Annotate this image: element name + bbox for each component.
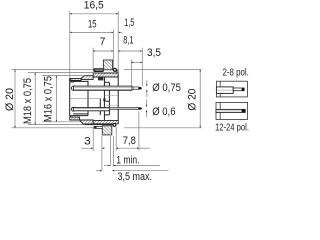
wire extension line x=93.1 (92, 48, 94, 70)
wire extension line x=142.3 (141, 48, 143, 87)
cavity bottom edge (70, 115, 88, 117)
svg-text:Ø 0,75: Ø 0,75 (152, 82, 181, 94)
dimension 1 min. (104, 155, 160, 167)
lower pin tail (109, 108, 138, 110)
upper pin Ø0,75: left cap (71, 86, 75, 90)
wire extension line x=113.4 top (112, 29, 114, 69)
dimension 3 bottom (81, 135, 105, 148)
front shell top wall hatched (70, 78, 81, 80)
insert step bottom (104, 114, 109, 116)
insert vertical x=109.4 (108, 82, 110, 115)
detail box 12-24 pol. (216, 102, 248, 119)
contact pin box1 (233, 88, 244, 91)
contact pin dark tip box1 (242, 88, 245, 91)
upper pin body (74, 86, 132, 90)
upper pin tip dark end (138, 87, 142, 90)
o-ring bottom (113, 123, 116, 126)
panel block top hatched (103, 60, 112, 70)
shell bottom ramp hatched (80, 120, 94, 124)
svg-text:Ø 20: Ø 20 (4, 88, 16, 111)
upper pin tip (132, 87, 139, 90)
contact bar inner line box2 (217, 110, 244, 112)
panel block bottom hatched (102, 126, 112, 135)
leader Ø0,6 arrows (147, 100, 176, 119)
dimension 15 (70, 18, 114, 32)
svg-text:12-24 pol.: 12-24 pol. (215, 122, 249, 134)
contact cup box1 (216, 87, 233, 94)
svg-text:Ø 0,6: Ø 0,6 (152, 106, 175, 118)
dark detail top back (98, 77, 103, 80)
lower pin Ø0,6: left cap (71, 107, 75, 111)
wire extension line front face (69, 11, 71, 78)
lip top (117, 70, 118, 73)
detail box2 inner vertical (219, 102, 221, 119)
dimension 16,5 (70, 0, 118, 14)
svg-text:8,1: 8,1 (123, 35, 133, 47)
center junction block (103, 98, 105, 101)
contact bar box2 (216, 109, 245, 112)
o-ring top (113, 68, 116, 71)
bottom extension lines (92, 127, 94, 151)
svg-text:16,5: 16,5 (84, 0, 104, 11)
contact cup inner line box1 (217, 89, 232, 91)
back face (117, 77, 119, 121)
center step line (106, 100, 110, 102)
svg-text:15: 15 (88, 18, 97, 30)
dimension 1,5 (118, 17, 134, 33)
dimension 7,8 (116, 135, 150, 148)
insulator front face (87, 81, 89, 116)
dimension 8,1 (118, 35, 142, 52)
svg-text:7: 7 (100, 36, 106, 48)
shell top M18 band hatched (93, 73, 118, 77)
dimension left Ø20 (4, 70, 93, 128)
flange ring bottom dark end (94, 126, 96, 128)
front face (70, 79, 72, 117)
svg-text:M18 x 0,75: M18 x 0,75 (22, 78, 34, 124)
dimension 3,5 max. (96, 171, 169, 183)
contact dark tip box2 (242, 109, 246, 112)
insert vertical x=104.4 (103, 77, 105, 120)
dimension right Ø20 (124, 70, 201, 128)
wire extension line x=131.4 (130, 59, 132, 86)
svg-text:Ø 20: Ø 20 (186, 89, 198, 111)
svg-text:7,8: 7,8 (123, 135, 136, 147)
dimension M16 x 0,75 (42, 76, 84, 122)
flange ring bottom (94, 126, 103, 128)
dimension M18 x 0,75 (22, 73, 93, 125)
svg-text:2-8 pol.: 2-8 pol. (223, 66, 249, 78)
front shell bottom wall hatched (70, 117, 80, 120)
ring bottom dark bar (86, 124, 114, 126)
shell top ramp M16 section hatched (81, 76, 93, 80)
detail box1 inner vertical (219, 81, 221, 97)
lower pin dark end (138, 107, 142, 109)
svg-text:1 min.: 1 min. (116, 155, 139, 167)
svg-text:1,5: 1,5 (124, 17, 134, 29)
lower pin body (73, 108, 109, 111)
lower pin inner line (74, 108, 137, 110)
upper pin inner lines (75, 86, 132, 88)
detail box 2-8 pol. (216, 81, 247, 97)
leader Ø0,75 arrows (147, 80, 181, 97)
shell bottom band hatched (93, 120, 118, 123)
svg-text:M16 x 0,75: M16 x 0,75 (43, 76, 55, 122)
flange ring top inner light (96, 69, 103, 71)
insulator bottom edge (73, 113, 88, 115)
svg-text:3: 3 (84, 135, 91, 147)
svg-text:3,5: 3,5 (147, 47, 161, 59)
connector body: cavity top edge (71, 80, 89, 82)
insert step top (104, 81, 109, 83)
dimension 3,5 top (131, 47, 161, 62)
dimension 7 (93, 36, 113, 51)
centerline (70, 97, 100, 99)
svg-text:3,5 max.: 3,5 max. (118, 171, 153, 183)
inner light line upper (104, 94, 118, 96)
wire extension line back face top (117, 11, 119, 77)
inner light line lower (106, 104, 118, 106)
center insert vertical (99, 99, 101, 115)
flange ring top (94, 69, 104, 72)
